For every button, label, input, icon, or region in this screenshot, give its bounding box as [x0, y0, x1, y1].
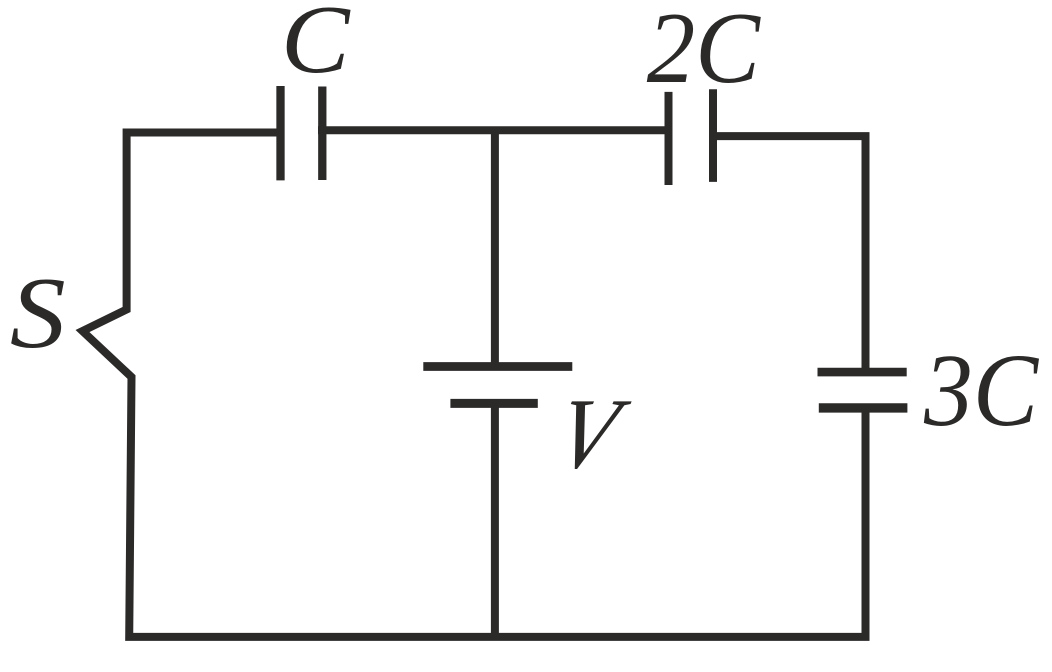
- svg-text:3C: 3C: [923, 333, 1040, 448]
- svg-text:2C: 2C: [647, 0, 762, 105]
- svg-text:V: V: [546, 379, 637, 490]
- svg-text:S: S: [10, 258, 66, 371]
- svg-text:C: C: [281, 0, 351, 94]
